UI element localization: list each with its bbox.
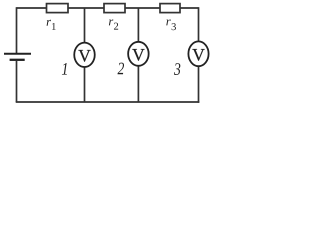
resistor r2 label subscript 2 xyxy=(114,23,118,30)
resistor r1 label subscript 1 xyxy=(52,23,56,30)
resistor r1 label r xyxy=(47,20,51,26)
node label 1 xyxy=(62,63,67,75)
wire left vertical (battery bottom lead) xyxy=(16,61,18,102)
node label 3 xyxy=(174,63,180,75)
wire branch 1 lower xyxy=(84,67,86,102)
resistor r2 label r xyxy=(109,20,113,26)
node label 2 xyxy=(118,63,125,75)
voltmeter V3 xyxy=(188,41,208,66)
voltmeter V2 letter V xyxy=(132,49,144,61)
wire branch 2 lower xyxy=(137,66,139,103)
wire branch 1 upper xyxy=(84,8,86,43)
wire right vertical lower xyxy=(198,66,200,103)
battery B1 negative plate xyxy=(10,59,25,61)
resistor r3 label r xyxy=(166,20,170,26)
resistor r2 xyxy=(104,4,125,13)
resistor r3 xyxy=(160,4,180,13)
wire branch 2 upper xyxy=(137,8,139,43)
wire left vertical (battery top lead) xyxy=(16,7,18,53)
wire top rail xyxy=(17,7,199,9)
resistor r1 xyxy=(47,4,69,13)
voltmeter V1 xyxy=(74,43,95,67)
resistor r3 label subscript 3 xyxy=(172,23,176,30)
wire bottom rail xyxy=(16,101,200,103)
voltmeter V2 xyxy=(128,42,149,66)
voltmeter V1 letter V xyxy=(78,50,90,62)
wire right vertical upper xyxy=(198,7,200,42)
battery B1 positive plate xyxy=(4,53,31,55)
voltmeter V3 letter V xyxy=(192,49,204,61)
